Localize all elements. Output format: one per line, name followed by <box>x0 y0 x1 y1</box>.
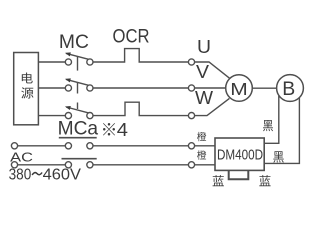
label 蓝 left (blue) <box>213 175 224 186</box>
motor M circle <box>226 75 253 102</box>
svg-text:4: 4 <box>117 120 128 141</box>
contactor MC pole 2 left terminal <box>65 85 71 91</box>
svg-text:380: 380 <box>9 167 32 184</box>
svg-text:OCR: OCR <box>113 27 150 48</box>
terminal W <box>188 113 194 119</box>
label 黑 upper (black) <box>263 120 273 131</box>
lower wire from MCa to DM400D terminal <box>93 164 188 166</box>
brake wire black lower to DM400D <box>264 98 299 163</box>
wire L2 from MC to V terminal and motor <box>93 87 226 89</box>
svg-text:U: U <box>197 37 211 57</box>
MCa contact upper left terminal <box>65 143 71 149</box>
contactor MC pole 3 left terminal <box>65 113 71 119</box>
MC mechanical link dash 3 <box>77 103 79 110</box>
contactor MC pole 1 right terminal <box>87 59 93 65</box>
svg-text:DM400D: DM400D <box>217 147 263 163</box>
orange upper terminal <box>188 143 194 149</box>
label 电 (power) <box>22 73 33 84</box>
AC lower wire to MCa contact <box>18 164 66 166</box>
brake B circle <box>277 75 304 102</box>
upper wire from MCa to DM400D terminal <box>93 145 188 147</box>
orange lower wire into DM400D <box>195 164 215 166</box>
terminal V <box>188 85 194 91</box>
wire L2 from source to MC contact <box>38 87 65 89</box>
svg-text:MC: MC <box>59 31 89 53</box>
label 蓝 right (blue) <box>259 175 270 186</box>
label 源 (source) <box>21 87 33 98</box>
svg-text:MCa: MCa <box>58 117 99 139</box>
label 橙 upper (orange) <box>197 132 206 141</box>
label reference mark ※ <box>103 123 115 135</box>
contactor MC pole 1 blade <box>66 53 88 59</box>
wire L1 from U terminal to motor <box>195 62 230 78</box>
tilde of voltage range <box>32 173 42 175</box>
wire L1 from MC to OCR bump and U terminal <box>93 49 188 62</box>
terminal U <box>188 59 194 65</box>
DM400D module box <box>215 138 264 170</box>
svg-text:B: B <box>282 79 295 100</box>
wire L3 from W terminal to motor <box>195 98 230 115</box>
contactor MC pole 1 blade arrow <box>65 52 71 56</box>
AC upper wire left terminal <box>11 143 17 149</box>
label 橙 lower (orange) <box>197 150 206 159</box>
contactor MC pole 3 right terminal <box>87 113 93 119</box>
svg-text:M: M <box>230 79 248 99</box>
MCa contact lower left terminal <box>65 162 71 168</box>
AC lower wire left terminal <box>11 162 17 168</box>
contactor MC pole 1 left terminal <box>65 59 71 65</box>
MC mechanical link dash 1 <box>77 56 79 70</box>
MCa contact upper right terminal <box>87 143 93 149</box>
contactor MC pole 3 blade arrow <box>65 106 71 110</box>
MC mechanical link dash 2 <box>77 82 79 94</box>
power source box 电源 <box>14 53 39 125</box>
label 黑 lower (black) <box>273 151 284 162</box>
MCa contact lower right terminal <box>87 162 93 168</box>
contactor MC pole 3 blade <box>66 107 88 113</box>
contactor MC pole 2 blade <box>66 79 88 85</box>
DM400D bottom tab <box>229 171 249 180</box>
svg-text:V: V <box>196 62 210 82</box>
orange upper wire into DM400D <box>195 145 215 147</box>
wire motor to brake <box>252 87 276 89</box>
wire L3 from source to MC contact <box>38 115 65 117</box>
MCa contact lower bridge bar <box>62 158 97 160</box>
svg-text:AC: AC <box>10 149 33 164</box>
svg-text:460V: 460V <box>43 167 82 184</box>
svg-text:W: W <box>195 87 213 108</box>
MCa contact upper bridge bar (also MCa underline) <box>59 137 97 139</box>
contactor MC pole 2 blade arrow <box>65 78 71 82</box>
brake wire black upper to DM400D <box>264 96 278 143</box>
orange lower terminal <box>188 162 194 168</box>
contactor MC pole 2 right terminal <box>87 85 93 91</box>
wire L3 from MC to OCR bump and W terminal <box>93 102 188 115</box>
wire L1 from source to MC contact <box>38 61 65 63</box>
AC upper wire to MCa contact <box>18 145 66 147</box>
